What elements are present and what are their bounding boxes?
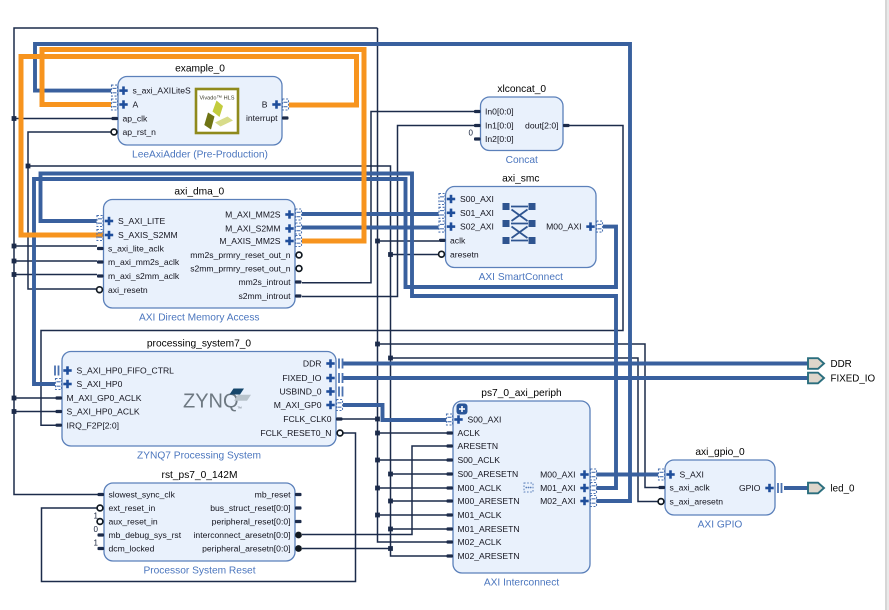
unconnected mark USBIND_0 xyxy=(339,387,343,397)
svg-text:rst_ps7_0_142M: rst_ps7_0_142M xyxy=(162,470,238,481)
pin stub m_axi_mm2s_aclk xyxy=(97,260,104,263)
pin stub In1 xyxy=(474,124,481,127)
svg-text:xlconcat_0: xlconcat_0 xyxy=(497,84,546,95)
pin stub S_AXI_LITE xyxy=(97,216,103,227)
external port FIXED_IO xyxy=(808,373,824,384)
icon ZYNQ logo xyxy=(183,389,251,413)
plus S_AXIS_S2MM xyxy=(105,231,113,239)
wire clock branch ap_clk xyxy=(14,118,112,120)
junction aresetn/S00_ARESETN xyxy=(388,472,393,477)
svg-text:FIXED_IO: FIXED_IO xyxy=(831,374,876,385)
pin stub M_AXIS_MM2S xyxy=(296,236,302,247)
bus DDR to external port xyxy=(343,362,808,366)
svg-text:M01_AXI: M01_AXI xyxy=(540,483,575,493)
pin stub axi_resetn (active low) xyxy=(97,287,103,293)
connection mark FIXED_IO xyxy=(339,373,343,383)
plus M01_AXI xyxy=(580,484,588,492)
plus GPIO xyxy=(765,484,773,492)
svg-text:s_axi_lite_aclk: s_axi_lite_aclk xyxy=(108,244,165,254)
svg-text:ARESETN: ARESETN xyxy=(458,441,499,451)
svg-text:axi_gpio_0: axi_gpio_0 xyxy=(695,447,745,458)
wire mm2s_introut to In0 xyxy=(302,112,475,283)
bus M00_AXI to axi_gpio S_AXI xyxy=(597,473,659,477)
pin stub M_AXI_GP0 xyxy=(337,400,343,411)
wire clock branch axi_smc aclk xyxy=(378,240,440,242)
plus M_AXI_GP0 xyxy=(326,401,334,409)
wire s2mm_introut to In1 xyxy=(302,126,475,297)
pin stub peripheral_reset xyxy=(295,520,302,523)
pin stub bus_struct_reset xyxy=(295,506,302,509)
block axi_smc xyxy=(446,187,597,268)
svg-text:M00_AXI: M00_AXI xyxy=(540,470,575,480)
svg-text:slowest_sync_clk: slowest_sync_clk xyxy=(109,490,176,500)
block rst_ps7_0_142M xyxy=(104,483,295,561)
svg-text:FCLK_CLK0: FCLK_CLK0 xyxy=(283,414,331,424)
pin stub interrupt xyxy=(282,116,289,119)
bus axi_smc M00_AXI to ZYNQ S_AXI_HP0 xyxy=(34,179,616,384)
junction clock/ap_clk xyxy=(12,116,17,121)
pin stub M_AXI_GP0_ACLK xyxy=(56,396,63,399)
pin stub FCLK_RESET0_N (active low) xyxy=(337,430,343,436)
plus B xyxy=(272,100,280,108)
svg-text:aresetn: aresetn xyxy=(450,249,479,259)
bus M01_AXI to axi_dma S_AXI_LITE xyxy=(41,174,617,489)
wire FCLK_RESET0_N to ext_reset_in xyxy=(42,433,356,582)
svg-text:mb_debug_sys_rst: mb_debug_sys_rst xyxy=(109,530,182,540)
pin stub aux_reset_in (active low) xyxy=(97,519,103,525)
pin stub s_axi_AXILiteS xyxy=(112,85,118,96)
svg-text:™: ™ xyxy=(237,406,242,412)
svg-text:ps7_0_axi_periph: ps7_0_axi_periph xyxy=(481,388,561,399)
svg-text:In1[0:0]: In1[0:0] xyxy=(485,121,514,131)
plus S_AXI_HP0 xyxy=(63,380,71,388)
svg-text:ap_clk: ap_clk xyxy=(123,114,149,124)
svg-text:M_AXIS_MM2S: M_AXIS_MM2S xyxy=(219,236,280,246)
connection mark DDR xyxy=(339,359,343,369)
svg-text:Vivado™ HLS: Vivado™ HLS xyxy=(199,96,234,102)
pin stub S00_ACLK xyxy=(447,458,454,461)
plus A xyxy=(119,100,127,108)
junction aresetn/smc aresetn xyxy=(388,252,393,257)
plus DDR xyxy=(326,359,334,367)
svg-text:S00_ARESETN: S00_ARESETN xyxy=(458,469,519,479)
pin stub s_axi_aresetn (active low) xyxy=(658,499,664,505)
svg-text:AXI Interconnect: AXI Interconnect xyxy=(484,578,559,589)
pin stub M_AXI_MM2S xyxy=(296,209,302,220)
svg-text:M02_AXI: M02_AXI xyxy=(540,496,575,506)
pin stub B xyxy=(283,99,289,110)
pin stub In0 xyxy=(474,110,481,113)
wire xlconcat dout to IRQ_F2P xyxy=(41,126,623,426)
svg-text:axi_resetn: axi_resetn xyxy=(108,285,148,295)
wire clock branch S00_ACLK xyxy=(378,459,447,461)
bus M_AXI_GP0 to interconnect S00_AXI xyxy=(343,405,446,420)
pin stub slowest_sync_clk xyxy=(98,493,105,496)
wire clock branch ACLK xyxy=(378,432,447,434)
svg-text:S01_AXI: S01_AXI xyxy=(460,208,494,218)
svg-text:ZYNQ7 Processing System: ZYNQ7 Processing System xyxy=(137,451,261,462)
wire clock branch S_AXI_HP0_ACLK xyxy=(14,411,56,413)
pin stub ap_rst_n (active low) xyxy=(111,129,117,135)
wire aresetn branch axi_smc aresetn xyxy=(391,254,439,256)
svg-text:M00_AXI: M00_AXI xyxy=(546,222,581,232)
svg-text:S_AXI: S_AXI xyxy=(680,470,704,480)
pin stub aclk xyxy=(439,239,446,242)
svg-text:S_AXI_LITE: S_AXI_LITE xyxy=(118,216,166,226)
pin stub S00_AXI xyxy=(439,194,445,205)
plus M02_AXI xyxy=(580,497,588,505)
wire ap_rst_n / axi_resetn xyxy=(28,132,111,289)
svg-text:peripheral_reset[0:0]: peripheral_reset[0:0] xyxy=(212,517,291,527)
pin stub M01_ARESETN xyxy=(447,527,454,530)
junction clock/FCLK_CLK0 xyxy=(375,417,380,422)
pin stub A xyxy=(112,99,118,110)
bus M02_AXI to example_0 s_axi_AXILiteS xyxy=(35,44,630,501)
pin stub M02_ACLK xyxy=(447,540,454,543)
svg-text:axi_dma_0: axi_dma_0 xyxy=(174,187,224,198)
pin stub S_AXI_HP0_ACLK xyxy=(56,410,63,413)
pin stub IRQ_F2P xyxy=(56,424,63,427)
svg-text:s_axi_AXILiteS: s_axi_AXILiteS xyxy=(133,86,192,96)
wire (highlighted) M_AXIS_MM2S to example_0 A xyxy=(42,50,364,242)
junction clock/M_AXI_GP0_ACLK xyxy=(12,396,17,401)
pin stub M00_AXI xyxy=(597,221,603,232)
plus S02_AXI xyxy=(447,222,455,230)
svg-text:example_0: example_0 xyxy=(175,64,225,75)
pin stub dcm_locked xyxy=(98,547,105,550)
pin stub S00_ARESETN xyxy=(447,472,454,475)
pin stub s2mm_introut xyxy=(295,294,302,297)
icon Vivado HLS logo xyxy=(196,89,238,133)
window scrollbar right xyxy=(886,0,889,610)
plus M_AXIS_MM2S xyxy=(285,237,293,245)
junction aresetn/gpio branch xyxy=(388,356,393,361)
svg-text:mm2s_introut: mm2s_introut xyxy=(238,277,291,287)
svg-text:DDR: DDR xyxy=(303,359,322,369)
svg-text:s2mm_prmry_reset_out_n: s2mm_prmry_reset_out_n xyxy=(190,264,291,274)
wire clock branch to axi_gpio s_axi_aclk xyxy=(378,344,659,488)
svg-text:dcm_locked: dcm_locked xyxy=(109,544,155,554)
svg-text:interconnect_aresetn[0:0]: interconnect_aresetn[0:0] xyxy=(194,530,291,540)
svg-text:dout[2:0]: dout[2:0] xyxy=(525,121,558,131)
pin stub s_axi_aclk xyxy=(659,486,666,489)
junction clock/S_AXI_HP0_ACLK xyxy=(12,409,17,414)
wire clock branch m_axi_s2mm_aclk xyxy=(14,274,97,276)
wire clock branch M00_ACLK xyxy=(378,487,447,489)
icon expand plus-box xyxy=(457,404,468,415)
pin stub M00_AXI xyxy=(591,469,597,480)
pin stub M00_ACLK xyxy=(447,486,454,489)
svg-text:FIXED_IO: FIXED_IO xyxy=(282,373,321,383)
svg-text:mm2s_prmry_reset_out_n: mm2s_prmry_reset_out_n xyxy=(190,250,291,260)
svg-text:processing_system7_0: processing_system7_0 xyxy=(147,339,252,350)
external port led_0 xyxy=(808,483,824,494)
junction clock/s_axi_lite_aclk xyxy=(12,244,17,249)
junction aresetn/M01_ARESETN xyxy=(388,527,393,532)
svg-text:DDR: DDR xyxy=(831,359,852,370)
plus S_AXI gpio xyxy=(666,470,674,478)
pin stub S00_AXI (interconnect) xyxy=(447,414,453,425)
junction aresetn/source xyxy=(388,546,393,551)
wire clock trunk right (x=377.5) to M02_ACLK xyxy=(378,28,454,542)
pin stub s2mm_prmry_reset_out_n xyxy=(296,266,302,272)
wire clock branch M01_ACLK xyxy=(378,514,447,516)
svg-text:B: B xyxy=(262,100,268,110)
wire aresetn branch M01_ARESETN xyxy=(391,528,447,530)
wire clock branch m_axi_mm2s_aclk xyxy=(14,260,97,262)
block axi_gpio_0 xyxy=(665,460,775,515)
block axi_dma_0 xyxy=(104,200,296,309)
junction clock/m_axi_mm2s_aclk xyxy=(12,259,17,264)
svg-text:M00_ACLK: M00_ACLK xyxy=(458,483,502,493)
junction clock/M00_ACLK xyxy=(375,486,380,491)
svg-text:1: 1 xyxy=(94,512,99,521)
svg-text:ext_reset_in: ext_reset_in xyxy=(109,503,156,513)
pin stub mb_debug_sys_rst xyxy=(98,533,105,536)
external port DDR xyxy=(808,358,824,369)
junction aresetn/M00_ARESETN xyxy=(388,499,393,504)
unconnected mark S_AXI_HP0_FIFO_CTRL xyxy=(55,366,59,376)
bus M_AXI_S2MM to axi_smc S02_AXI xyxy=(302,226,439,230)
svg-text:m_axi_s2mm_aclk: m_axi_s2mm_aclk xyxy=(108,271,180,281)
plus S_AXI_HP0_FIFO_CTRL xyxy=(63,366,71,374)
pin stub S_AXIS_S2MM xyxy=(97,230,103,241)
pin stub peripheral_aresetn xyxy=(295,545,302,552)
pin stub ACLK xyxy=(447,431,454,434)
pin stub M02_ARESETN xyxy=(447,554,454,557)
block processing_system7_0 xyxy=(62,352,336,447)
svg-text:M_AXI_GP0_ACLK: M_AXI_GP0_ACLK xyxy=(67,393,142,403)
svg-text:FCLK_RESET0_N: FCLK_RESET0_N xyxy=(260,428,331,438)
svg-text:A: A xyxy=(133,100,139,110)
svg-text:In0[0:0]: In0[0:0] xyxy=(485,107,514,117)
svg-text:led_0: led_0 xyxy=(831,484,856,495)
svg-text:M01_ACLK: M01_ACLK xyxy=(458,510,502,520)
svg-text:S_AXIS_S2MM: S_AXIS_S2MM xyxy=(118,230,178,240)
svg-text:s_axi_aclk: s_axi_aclk xyxy=(670,483,711,493)
svg-text:peripheral_aresetn[0:0]: peripheral_aresetn[0:0] xyxy=(202,544,290,554)
svg-text:M01_ARESETN: M01_ARESETN xyxy=(458,524,520,534)
junction clock/m_axi_s2mm_aclk xyxy=(12,272,17,277)
svg-text:M_AXI_MM2S: M_AXI_MM2S xyxy=(225,210,281,220)
block example_0 xyxy=(118,77,282,146)
bus GPIO to led_0 xyxy=(784,486,808,490)
junction aresetn/ap_rst_n xyxy=(26,164,31,169)
wire (highlighted) example_0 B to S_AXIS_S2MM xyxy=(21,57,357,236)
wire clock top + left trunk to slowest_sync_clk xyxy=(14,28,378,495)
svg-text:S02_AXI: S02_AXI xyxy=(460,222,494,232)
svg-text:M_AXI_GP0: M_AXI_GP0 xyxy=(274,400,322,410)
svg-text:aux_reset_in: aux_reset_in xyxy=(109,517,158,527)
icon busy dotted square near M01_AXI xyxy=(524,483,533,492)
pin stub mb_reset xyxy=(295,493,302,496)
svg-text:aclk: aclk xyxy=(450,236,466,246)
plus FIXED_IO xyxy=(326,374,334,382)
pin stub ARESETN xyxy=(447,444,454,447)
junction clock/gpio branch xyxy=(375,342,380,347)
plus S_AXI_LITE xyxy=(105,217,113,225)
pin stub mm2s_introut xyxy=(295,280,302,283)
plus S00_AXI interconnect xyxy=(454,415,462,423)
svg-text:0: 0 xyxy=(469,129,474,138)
plus M_AXI_MM2S xyxy=(285,210,293,218)
pin stub ap_clk xyxy=(112,117,119,120)
junction clock/S00_ACLK xyxy=(375,458,380,463)
bus M_AXI_MM2S to axi_smc S01_AXI xyxy=(302,212,439,216)
svg-text:S_AXI_HP0_FIFO_CTRL: S_AXI_HP0_FIFO_CTRL xyxy=(77,366,175,376)
pin stub aresetn (active low) xyxy=(439,251,445,257)
plus s_axi_AXILiteS xyxy=(119,86,127,94)
wire clock branch M_AXI_GP0_ACLK xyxy=(14,397,56,399)
svg-text:ACLK: ACLK xyxy=(458,428,481,438)
junction clock/ACLK xyxy=(375,431,380,436)
bus FIXED_IO to external port xyxy=(343,376,808,380)
svg-text:0: 0 xyxy=(94,525,99,534)
svg-text:M00_ARESETN: M00_ARESETN xyxy=(458,496,520,506)
junction clock/M01_ACLK xyxy=(375,513,380,518)
block ps7_0_axi_periph xyxy=(453,401,590,573)
svg-text:IRQ_F2P[2:0]: IRQ_F2P[2:0] xyxy=(67,420,120,430)
svg-text:S00_AXI: S00_AXI xyxy=(468,415,502,425)
svg-text:s2mm_introut: s2mm_introut xyxy=(238,291,291,301)
wire peripheral_aresetn source from rst block xyxy=(302,548,391,550)
svg-text:Processor System Reset: Processor System Reset xyxy=(143,566,255,577)
svg-text:AXI Direct Memory Access: AXI Direct Memory Access xyxy=(139,313,260,324)
pin stub interconnect_aresetn xyxy=(295,532,302,539)
svg-text:USBIND_0: USBIND_0 xyxy=(279,387,321,397)
plus M00_AXI xyxy=(586,222,594,230)
connection mark GPIO xyxy=(778,483,782,493)
svg-text:1: 1 xyxy=(94,539,99,548)
plus USBIND_0 xyxy=(326,387,334,395)
svg-text:GPIO: GPIO xyxy=(739,483,761,493)
svg-text:In2[0:0]: In2[0:0] xyxy=(485,134,514,144)
wire clock branch s_axi_lite_aclk xyxy=(14,245,97,247)
wire aresetn branch M00_ARESETN xyxy=(391,500,447,502)
plus M00_AXI xyxy=(580,470,588,478)
svg-text:AXI SmartConnect: AXI SmartConnect xyxy=(479,272,564,283)
wire FCLK_CLK0 source segment xyxy=(341,418,378,420)
svg-text:M02_ARESETN: M02_ARESETN xyxy=(458,551,520,561)
pin stub In2 xyxy=(474,137,481,140)
pin stub S02_AXI xyxy=(439,221,445,232)
svg-text:M02_ACLK: M02_ACLK xyxy=(458,537,502,547)
junction clock/smc aclk xyxy=(375,239,380,244)
svg-text:axi_smc: axi_smc xyxy=(502,174,539,185)
pin stub m_axi_s2mm_aclk xyxy=(97,274,104,277)
plus S00_AXI xyxy=(447,195,455,203)
svg-text:M_AXI_S2MM: M_AXI_S2MM xyxy=(225,224,280,234)
svg-text:interrupt: interrupt xyxy=(246,113,278,123)
plus S01_AXI xyxy=(447,209,455,217)
icon smartconnect crossbar xyxy=(503,203,536,244)
pin stub s_axi_lite_aclk xyxy=(97,247,104,250)
pin stub mm2s_prmry_reset_out_n xyxy=(296,252,302,258)
pin stub S_AXI_HP0 xyxy=(56,379,62,390)
wire aresetn branch S00_ARESETN xyxy=(391,473,447,475)
svg-text:m_axi_mm2s_aclk: m_axi_mm2s_aclk xyxy=(108,257,180,267)
pin stub M01_ACLK xyxy=(447,513,454,516)
svg-text:AXI GPIO: AXI GPIO xyxy=(698,520,743,531)
svg-text:S_AXI_HP0_ACLK: S_AXI_HP0_ACLK xyxy=(67,407,140,417)
svg-text:mb_reset: mb_reset xyxy=(255,490,291,500)
pin stub S_AXI (gpio) xyxy=(659,469,665,480)
pin stub FCLK_CLK0 xyxy=(336,417,343,420)
pin stub S01_AXI xyxy=(439,207,445,218)
wire aresetn trunk to M02_ARESETN xyxy=(28,166,454,556)
pin stub M01_AXI xyxy=(591,483,597,494)
pin stub ext_reset_in (active low) xyxy=(97,505,103,511)
pin stub M_AXI_S2MM xyxy=(296,223,302,234)
svg-text:Concat: Concat xyxy=(506,155,538,166)
svg-text:bus_struct_reset[0:0]: bus_struct_reset[0:0] xyxy=(210,503,290,513)
pin stub M02_AXI xyxy=(591,496,597,507)
svg-text:S00_AXI: S00_AXI xyxy=(460,194,494,204)
plus M_AXI_S2MM xyxy=(285,224,293,232)
svg-text:S00_ACLK: S00_ACLK xyxy=(458,455,501,465)
pin stub M00_ARESETN xyxy=(447,499,454,502)
svg-text:LeeAxiAdder (Pre-Production): LeeAxiAdder (Pre-Production) xyxy=(132,150,268,161)
pin stub dout xyxy=(563,124,570,127)
wire interconnect_aresetn to ARESETN xyxy=(302,446,447,535)
svg-text:s_axi_aresetn: s_axi_aresetn xyxy=(670,497,724,507)
wire aresetn branch to axi_gpio s_axi_aresetn xyxy=(391,358,659,502)
block xlconcat_0 xyxy=(481,97,564,151)
svg-text:ap_rst_n: ap_rst_n xyxy=(123,127,157,137)
svg-text:S_AXI_HP0: S_AXI_HP0 xyxy=(77,379,123,389)
